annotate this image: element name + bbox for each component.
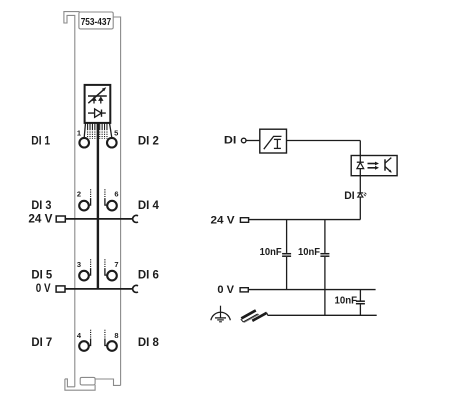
svg-text:DI 5: DI 5 xyxy=(31,269,52,281)
svg-text:1: 1 xyxy=(77,128,81,137)
svg-text:5: 5 xyxy=(114,128,118,137)
svg-text:10nF: 10nF xyxy=(298,247,320,258)
svg-text:753-437: 753-437 xyxy=(81,17,112,28)
svg-text:24 V: 24 V xyxy=(28,214,52,226)
svg-text:2: 2 xyxy=(77,189,81,198)
svg-text:DI 2: DI 2 xyxy=(138,135,159,147)
svg-text:10nF: 10nF xyxy=(260,247,282,258)
svg-text:DI 8: DI 8 xyxy=(138,337,160,349)
svg-text:6: 6 xyxy=(114,189,118,198)
svg-text:DI 7: DI 7 xyxy=(31,337,52,349)
svg-text:8: 8 xyxy=(114,331,118,340)
svg-text:DI 4: DI 4 xyxy=(138,200,160,212)
svg-text:DI 6: DI 6 xyxy=(138,269,159,281)
svg-text:3: 3 xyxy=(77,260,81,269)
svg-text:DI: DI xyxy=(224,135,237,147)
svg-text:0 V: 0 V xyxy=(36,283,51,295)
svg-text:7: 7 xyxy=(114,260,118,269)
svg-text:DI 3: DI 3 xyxy=(31,200,51,212)
svg-text:10nF: 10nF xyxy=(335,295,358,306)
svg-text:DI 1: DI 1 xyxy=(31,135,50,147)
svg-text:0 V: 0 V xyxy=(217,284,234,296)
svg-text:24 V: 24 V xyxy=(211,215,236,227)
svg-text:DI: DI xyxy=(344,190,354,202)
